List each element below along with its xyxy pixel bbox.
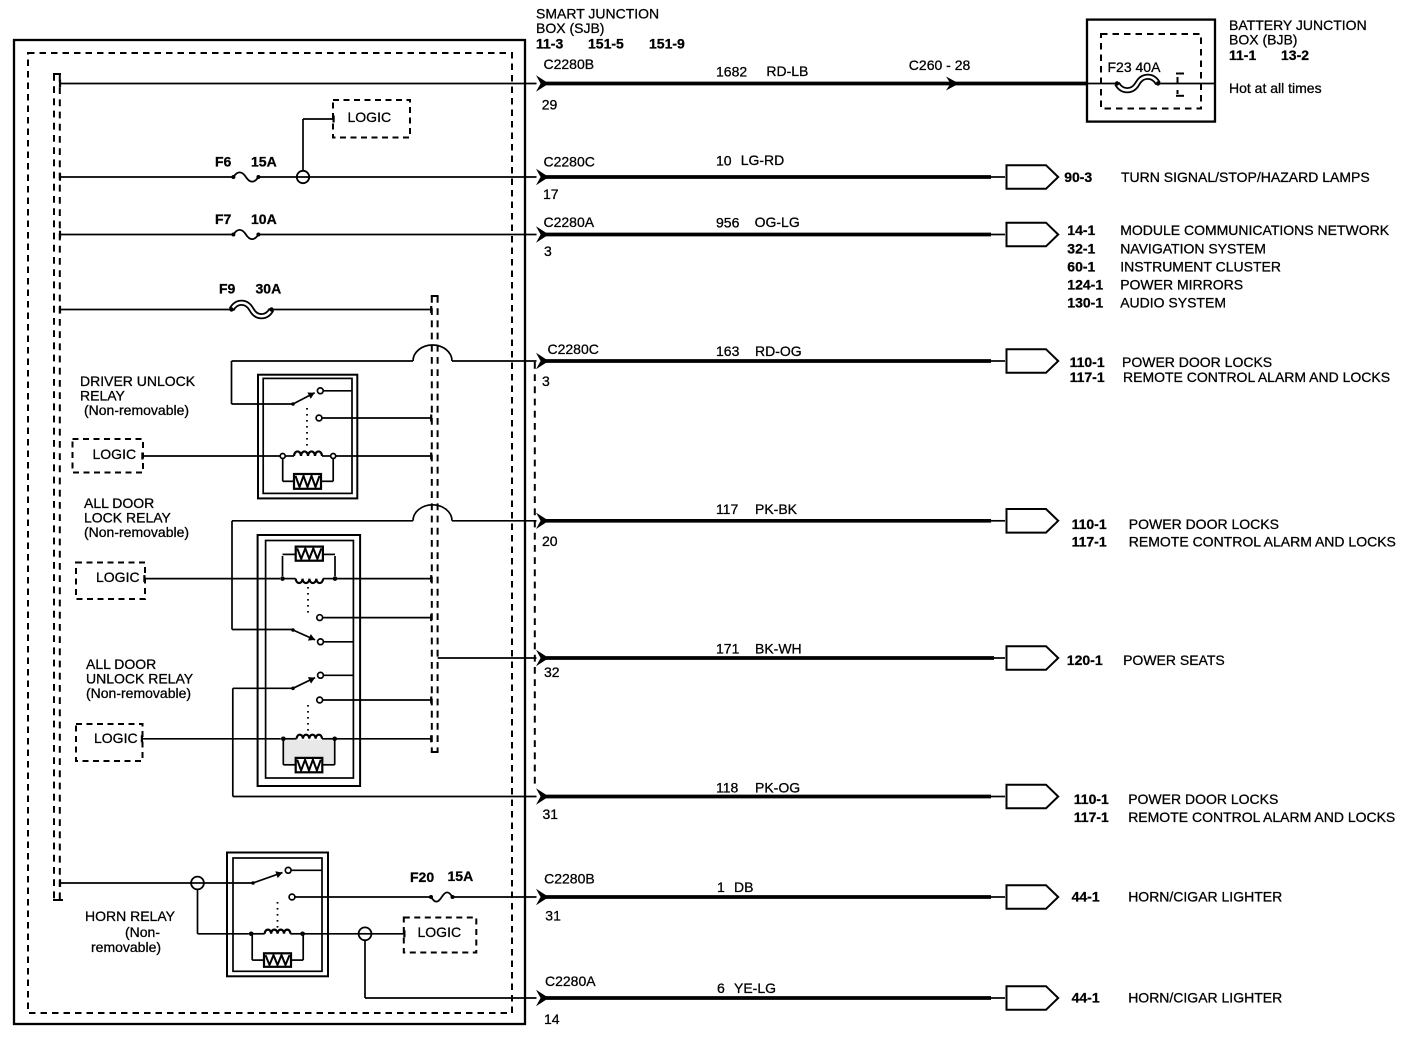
wire LOGIC4 to unlock relay coil — [143, 738, 281, 740]
ref 110-1 (c) — [1074, 791, 1109, 807]
in-line connector arrow 110-1/117-1 (a) — [1007, 349, 1059, 373]
connector exit arrow (pin20) — [536, 513, 549, 529]
svg-text:31: 31 — [545, 908, 561, 924]
BJB fuse terminal (small dashed bracket) — [1176, 74, 1184, 96]
label REMOTE CONTROL ALARM AND LOCKS (b) — [1129, 534, 1396, 550]
svg-text:30A: 30A — [256, 280, 282, 296]
page ref 13-2 — [1281, 47, 1309, 63]
driver unlock relay coil — [280, 451, 336, 458]
connector C2280C exit arrow (pin3) — [536, 353, 549, 369]
wire 117 PK-BK (thick) — [546, 519, 1005, 523]
wire 118 PK-OG (thick) — [546, 795, 1005, 799]
wire F20 to exit — [453, 896, 537, 898]
driver unlock relay switch arm — [291, 393, 315, 406]
svg-text:DB: DB — [734, 879, 753, 895]
connector C2280B exit arrow — [536, 75, 549, 91]
label circuit 956 OG-LG — [716, 214, 800, 230]
svg-text:REMOTE CONTROL ALARM AND LOCKS: REMOTE CONTROL ALARM AND LOCKS — [1123, 369, 1390, 385]
page ref 151-5 — [588, 36, 624, 52]
label AUDIO SYSTEM — [1120, 295, 1226, 311]
connector exit arrow (pin31a) — [536, 788, 549, 804]
svg-text:C2280C: C2280C — [544, 154, 595, 170]
horn relay switch arm — [251, 871, 282, 885]
label 15A (F20) — [448, 868, 474, 884]
svg-text:117-1: 117-1 — [1072, 534, 1107, 550]
svg-text:956: 956 — [716, 215, 740, 231]
connector C2280A exit arrow (pin3) — [536, 226, 549, 242]
wire LOGIC3 to lock relay coil — [145, 578, 280, 580]
svg-text:BOX (BJB): BOX (BJB) — [1229, 31, 1297, 47]
svg-text:POWER SEATS: POWER SEATS — [1123, 652, 1225, 668]
lock relay switch arm — [291, 628, 315, 640]
wire 117 PK-BK left segment — [232, 521, 413, 630]
unlock relay suppression resistor — [283, 740, 334, 772]
connector C2280A exit arrow (pin14) — [536, 990, 549, 1006]
connector C2280C exit arrow (pin17) — [536, 169, 549, 185]
label circuit 171 BK-WH — [716, 641, 802, 657]
label circuit 117 PK-BK — [716, 501, 798, 517]
ref 44-1 (b) — [1072, 990, 1100, 1006]
svg-text:110-1: 110-1 — [1074, 791, 1109, 807]
svg-text:3: 3 — [542, 373, 550, 389]
wire LOGIC2 to relay coil — [143, 455, 280, 457]
svg-text:1: 1 — [717, 879, 725, 895]
svg-text:AUDIO SYSTEM: AUDIO SYSTEM — [1120, 295, 1226, 311]
wire 1682 RD-LB (thick) — [546, 82, 1088, 86]
unlock relay contact 2 — [317, 697, 432, 704]
unlock relay contact 1 (switched) — [318, 672, 354, 678]
label C2280A (pin14) — [545, 973, 596, 989]
svg-text:POWER DOOR LOCKS: POWER DOOR LOCKS — [1129, 516, 1279, 532]
svg-text:NAVIGATION SYSTEM: NAVIGATION SYSTEM — [1120, 240, 1266, 256]
unlock relay coil shaded area — [284, 740, 333, 764]
label POWER DOOR LOCKS (c) — [1128, 791, 1278, 807]
pin number 31 (b) — [545, 908, 561, 924]
svg-text:C2280B: C2280B — [544, 56, 595, 72]
wire horn coil to LOGIC 5 — [303, 933, 404, 935]
label HORN RELAY (Non-removable) — [85, 908, 176, 955]
LOGIC box 1 (dashed) — [333, 100, 410, 138]
svg-text:14-1: 14-1 — [1067, 222, 1095, 238]
horn relay inner box — [233, 858, 322, 971]
svg-text:HORN/CIGAR LIGHTER: HORN/CIGAR LIGHTER — [1128, 990, 1282, 1006]
label F9 — [219, 280, 236, 296]
wire horn relay feed — [60, 879, 253, 887]
ref 90-3 — [1064, 169, 1092, 185]
svg-text:DRIVER UNLOCK: DRIVER UNLOCK — [80, 373, 196, 389]
pin number 14 — [544, 1011, 560, 1027]
svg-text:1682: 1682 — [716, 63, 747, 79]
ref 60-1 — [1067, 258, 1095, 274]
fuse F23 40A — [1115, 77, 1160, 91]
wire unlock coil to connector strip — [335, 735, 432, 742]
page ref 11-1 — [1229, 47, 1256, 63]
unlock relay armature link (dotted) — [307, 705, 309, 731]
label circuit 10 LG-RD — [716, 152, 784, 168]
svg-text:LOGIC: LOGIC — [418, 924, 462, 940]
pin number 3 (C2280C) — [542, 373, 550, 389]
svg-text:TURN SIGNAL/STOP/HAZARD LAMPS: TURN SIGNAL/STOP/HAZARD LAMPS — [1121, 169, 1370, 185]
svg-text:PK-BK: PK-BK — [755, 501, 798, 517]
horn relay contact 2 — [289, 894, 431, 900]
label MODULE COMMUNICATIONS NETWORK — [1120, 222, 1390, 238]
horn relay armature link (dotted) — [277, 902, 279, 928]
ref 117-1 (b) — [1072, 534, 1107, 550]
ref 14-1 — [1067, 222, 1095, 238]
svg-text:117-1: 117-1 — [1070, 369, 1105, 385]
ref 124-1 — [1067, 276, 1103, 292]
wire fuse F6 to exit — [258, 176, 536, 178]
wire F9 feed (SJB internal) — [60, 306, 232, 314]
svg-text:ALL DOOR: ALL DOOR — [84, 495, 154, 511]
label TURN SIGNAL/STOP/HAZARD LAMPS — [1121, 169, 1370, 185]
label C2280B — [544, 56, 595, 72]
svg-text:(Non-removable): (Non-removable) — [86, 685, 191, 701]
horn relay outer box — [227, 853, 328, 977]
label 15A (F6) — [251, 154, 277, 170]
label NAVIGATION SYSTEM — [1120, 240, 1266, 256]
ref 110-1 (b) — [1072, 516, 1107, 532]
LOGIC box 2 (dashed) — [73, 439, 144, 473]
in-line connector arrow 110-1/117-1 (b) — [1007, 509, 1059, 533]
driver unlock relay suppression resistor — [283, 459, 334, 489]
svg-text:17: 17 — [543, 186, 559, 202]
label POWER DOOR LOCKS (a) — [1122, 354, 1272, 370]
svg-text:15A: 15A — [448, 868, 474, 884]
svg-text:171: 171 — [716, 641, 740, 657]
ref 44-1 (a) — [1072, 889, 1100, 905]
label LOGIC 5 — [418, 924, 462, 940]
wire 163 RD-OG left segment from relay — [232, 361, 414, 404]
in-line connector arrow 110-1/117-1 (c) — [1007, 785, 1059, 809]
svg-text:ALL DOOR: ALL DOOR — [86, 656, 156, 672]
label circuit 1682 RD-LB — [716, 63, 808, 80]
label F20 — [410, 869, 434, 885]
lock/unlock relay inner box — [266, 541, 354, 779]
in-line connector arrow 90-3 — [1007, 165, 1059, 189]
label POWER SEATS — [1123, 652, 1225, 668]
svg-text:BK-WH: BK-WH — [755, 641, 802, 657]
fuse F20 15A — [429, 892, 455, 901]
ref 32-1 — [1067, 240, 1095, 256]
svg-text:117: 117 — [716, 501, 739, 517]
svg-text:OG-LG: OG-LG — [755, 214, 800, 230]
svg-text:151-9: 151-9 — [649, 36, 685, 52]
ref 117-1 (a) — [1070, 369, 1105, 385]
fuse F7 10A — [231, 230, 260, 239]
label BATTERY JUNCTION BOX (BJB) — [1229, 17, 1367, 47]
svg-text:11-3: 11-3 — [536, 36, 563, 52]
svg-text:151-5: 151-5 — [588, 36, 624, 52]
svg-text:PK-OG: PK-OG — [755, 780, 800, 796]
wire into fuse F23 (BJB internal) — [1088, 83, 1215, 85]
ref 130-1 — [1067, 295, 1103, 311]
label REMOTE CONTROL ALARM AND LOCKS (a) — [1123, 369, 1390, 385]
label DRIVER UNLOCK RELAY (Non-removable) — [80, 373, 196, 418]
in-line connector arrow 44-1 (a) — [1007, 885, 1059, 909]
svg-text:C2280A: C2280A — [544, 214, 595, 230]
svg-text:YE-LG: YE-LG — [734, 980, 776, 996]
label F6 — [215, 154, 232, 170]
svg-text:118: 118 — [716, 780, 739, 796]
svg-text:10: 10 — [716, 152, 732, 168]
junction circle horn coil / C2280A-14 — [359, 927, 372, 940]
lock relay coil — [280, 576, 337, 583]
ref 110-1 (a) — [1070, 354, 1105, 370]
lock relay armature link (dotted) — [307, 587, 309, 613]
junction circle on horn feed — [191, 877, 204, 890]
SJB internal connector strip (middle, dashed pair) — [431, 296, 439, 752]
label 30A (F9) — [256, 280, 282, 296]
page ref 11-3 — [536, 36, 563, 52]
wire 956 OG-LG (thick) — [546, 233, 1005, 237]
svg-text:14: 14 — [544, 1011, 560, 1027]
LOGIC box 4 (dashed) — [76, 724, 143, 761]
svg-text:110-1: 110-1 — [1072, 516, 1107, 532]
svg-text:90-3: 90-3 — [1064, 169, 1092, 185]
svg-text:124-1: 124-1 — [1067, 276, 1103, 292]
svg-text:11-1: 11-1 — [1229, 47, 1256, 63]
wire junction to LOGIC box 1 — [303, 119, 333, 171]
unlock relay switch arm — [291, 677, 315, 690]
horn relay coil — [249, 930, 305, 936]
svg-text:C2280A: C2280A — [545, 973, 596, 989]
wire F6 feed (SJB internal) — [60, 173, 233, 181]
wire F9 to middle connector strip — [272, 306, 432, 313]
pin number 17 — [543, 186, 559, 202]
svg-text:130-1: 130-1 — [1067, 295, 1103, 311]
svg-text:F7: F7 — [215, 211, 232, 227]
label Hot at all times — [1229, 80, 1322, 96]
svg-text:29: 29 — [542, 97, 558, 113]
label HORN/CIGAR LIGHTER (b) — [1128, 990, 1282, 1006]
svg-text:BOX (SJB): BOX (SJB) — [536, 20, 604, 36]
in-line connector arrow 120-1 — [1007, 646, 1059, 670]
unlock relay feed wire — [233, 688, 293, 796]
wire 1 DB (thick) — [546, 895, 1005, 899]
svg-text:163: 163 — [716, 343, 740, 359]
svg-text:60-1: 60-1 — [1067, 258, 1095, 274]
lock relay contact 1 — [317, 614, 432, 621]
LOGIC box 5 (dashed) — [404, 918, 477, 953]
in-line connector arrow 14-1 group — [1007, 223, 1059, 247]
pin number 29 — [542, 97, 558, 113]
ref 120-1 — [1067, 652, 1103, 668]
label LOGIC 1 — [348, 109, 392, 125]
label C2280C (pin17) — [544, 154, 595, 170]
fuse F9 30A — [229, 303, 273, 317]
driver unlock relay armature link (dotted) — [306, 408, 308, 449]
SJB internal connector strip (left, dashed pair) — [53, 74, 63, 900]
pin number 3 (C2280A) — [544, 243, 552, 259]
svg-text:INSTRUMENT CLUSTER: INSTRUMENT CLUSTER — [1120, 258, 1281, 274]
in-line connector arrow 44-1 (b) — [1007, 986, 1059, 1010]
svg-text:LOGIC: LOGIC — [94, 730, 138, 746]
wire 163 RD-OG (thick) — [546, 359, 1005, 363]
page ref 151-9 — [649, 36, 685, 52]
svg-text:32: 32 — [544, 664, 560, 680]
wire fuse F7 to exit — [258, 234, 536, 236]
svg-text:3: 3 — [544, 243, 552, 259]
lock relay suppression resistor — [283, 547, 336, 576]
svg-text:C260 - 28: C260 - 28 — [909, 57, 971, 73]
junction circle to LOGIC 1 — [297, 171, 309, 183]
label HORN/CIGAR LIGHTER (a) — [1128, 889, 1282, 905]
wire 6 YE-LG (thick) — [546, 996, 1005, 1000]
svg-text:(Non-: (Non- — [125, 924, 160, 940]
svg-text:6: 6 — [717, 980, 725, 996]
svg-text:C2280C: C2280C — [548, 341, 599, 357]
label circuit 1 DB — [717, 879, 753, 895]
driver unlock relay contact 1 (NO) — [317, 388, 352, 394]
arrow C260 on wire — [946, 77, 959, 91]
svg-text:LG-RD: LG-RD — [741, 152, 785, 168]
svg-text:20: 20 — [542, 533, 558, 549]
label circuit 6 YE-LG — [717, 980, 776, 996]
connector exit arrow (pin32) — [536, 650, 549, 666]
svg-text:removable): removable) — [91, 939, 161, 955]
wire hop over connector strip (117 PK-BK) — [413, 505, 452, 521]
wire 6 YE-LG (SJB internal) — [365, 940, 537, 998]
pin number 31 (a) — [543, 806, 559, 822]
svg-text:F23 40A: F23 40A — [1108, 59, 1162, 75]
wire F7 feed (SJB internal) — [60, 231, 233, 239]
label POWER DOOR LOCKS (b) — [1129, 516, 1279, 532]
label C2280C (pin3) — [548, 341, 599, 357]
label REMOTE CONTROL ALARM AND LOCKS (c) — [1128, 809, 1395, 825]
unlock relay coil — [281, 735, 337, 741]
svg-text:HORN/CIGAR LIGHTER: HORN/CIGAR LIGHTER — [1128, 889, 1282, 905]
svg-text:(Non-removable): (Non-removable) — [84, 402, 189, 418]
label 10A (F7) — [251, 211, 277, 227]
svg-text:Hot at all times: Hot at all times — [1229, 80, 1322, 96]
SJB inner dashed boundary — [28, 53, 512, 1013]
svg-text:32-1: 32-1 — [1067, 240, 1095, 256]
label LOGIC 4 — [94, 730, 138, 746]
svg-text:117-1: 117-1 — [1074, 809, 1109, 825]
svg-text:HORN RELAY: HORN RELAY — [85, 908, 176, 924]
svg-text:44-1: 44-1 — [1072, 990, 1100, 1006]
svg-text:LOGIC: LOGIC — [93, 446, 137, 462]
label INSTRUMENT CLUSTER — [1120, 258, 1281, 274]
fuse F6 15A — [231, 172, 260, 181]
svg-text:120-1: 120-1 — [1067, 652, 1103, 668]
pin number 20 — [542, 533, 558, 549]
label circuit 163 RD-OG — [716, 343, 802, 359]
svg-text:RD-LB: RD-LB — [766, 63, 808, 79]
svg-text:F20: F20 — [410, 869, 434, 885]
horn relay contact 1 (NO) — [285, 867, 322, 873]
svg-text:REMOTE CONTROL ALARM AND LOCKS: REMOTE CONTROL ALARM AND LOCKS — [1128, 809, 1395, 825]
wire 118 PK-OG (SJB internal) — [233, 796, 537, 798]
svg-text:44-1: 44-1 — [1072, 889, 1100, 905]
wire C2280B pin 29 (SJB internal) — [60, 80, 537, 88]
svg-text:MODULE COMMUNICATIONS NETWORK: MODULE COMMUNICATIONS NETWORK — [1120, 222, 1390, 238]
label circuit 118 PK-OG — [716, 780, 800, 796]
label C2280A (pin3) — [544, 214, 595, 230]
wire 163 RD-OG to exit — [452, 360, 537, 362]
wire 171 BK-WH from strip — [438, 657, 537, 659]
svg-text:POWER MIRRORS: POWER MIRRORS — [1120, 276, 1243, 292]
dashed connector line right of SJB box — [534, 362, 536, 789]
svg-text:13-2: 13-2 — [1281, 47, 1309, 63]
svg-text:F9: F9 — [219, 280, 236, 296]
pin number 32 — [544, 664, 560, 680]
svg-text:POWER DOOR LOCKS: POWER DOOR LOCKS — [1122, 354, 1272, 370]
wire 171 BK-WH (thick) — [546, 656, 1005, 660]
driver unlock relay inner box — [263, 378, 352, 493]
wire junction circle to horn coil — [198, 889, 249, 933]
svg-text:F6: F6 — [215, 154, 232, 170]
svg-text:15A: 15A — [251, 154, 277, 170]
Battery Junction Box solid outline — [1087, 20, 1215, 122]
svg-text:C2280B: C2280B — [544, 871, 595, 887]
label ALL DOOR UNLOCK RELAY (Non-removable) — [86, 656, 194, 701]
label F23 40A — [1108, 59, 1162, 75]
wire hop over connector strip (163 RD-OG) — [413, 345, 452, 361]
lock relay contact 2 (switched) — [318, 639, 354, 645]
label ALL DOOR LOCK RELAY (Non-removable) — [84, 495, 189, 540]
lock/unlock relay outer box — [258, 535, 361, 786]
svg-text:LOGIC: LOGIC — [96, 569, 140, 585]
BJB inner dashed boundary — [1101, 34, 1201, 109]
wire lock coil to connector strip — [335, 575, 432, 582]
LOGIC box 3 (dashed) — [76, 563, 145, 600]
svg-text:LOGIC: LOGIC — [348, 109, 392, 125]
label C2280B (pin31) — [544, 871, 595, 887]
wire coil to connector strip — [336, 453, 432, 460]
wire 10 LG-RD (thick) — [546, 175, 1005, 179]
svg-text:110-1: 110-1 — [1070, 354, 1105, 370]
wire 117 PK-BK to exit — [452, 520, 537, 522]
label F7 — [215, 211, 232, 227]
label SMART JUNCTION BOX (SJB) — [536, 6, 659, 36]
driver unlock relay contact 2 — [316, 415, 432, 422]
ref 117-1 (c) — [1074, 809, 1109, 825]
svg-text:(Non-removable): (Non-removable) — [84, 524, 189, 540]
connector C2280B exit arrow (pin31b) — [536, 889, 549, 905]
label LOGIC 2 — [93, 446, 137, 462]
label connector C260 - 28 — [909, 57, 971, 73]
svg-text:POWER DOOR LOCKS: POWER DOOR LOCKS — [1128, 791, 1278, 807]
horn relay suppression resistor — [252, 935, 303, 967]
label LOGIC 3 — [96, 569, 140, 585]
svg-text:RD-OG: RD-OG — [755, 343, 802, 359]
label POWER MIRRORS — [1120, 276, 1243, 292]
svg-text:31: 31 — [543, 806, 559, 822]
driver unlock relay outer box — [258, 375, 357, 499]
svg-text:REMOTE CONTROL ALARM AND LOCKS: REMOTE CONTROL ALARM AND LOCKS — [1129, 534, 1396, 550]
Smart Junction Box outer solid boundary — [14, 40, 525, 1024]
svg-text:10A: 10A — [251, 211, 277, 227]
